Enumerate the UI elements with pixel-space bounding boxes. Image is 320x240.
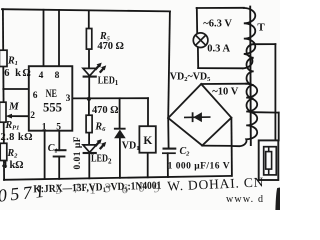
wire VD1 to ground rail [119, 139, 121, 178]
svg-text:1: 1 [42, 123, 47, 133]
wire K branch from pin3 row [147, 98, 149, 126]
bridge rectifier VD2-VD5 diamond [168, 84, 231, 146]
svg-text:~10 V: ~10 V [212, 86, 238, 97]
wire left rail [3, 9, 4, 180]
svg-text:C1: C1 [48, 143, 58, 155]
svg-text:K: K [143, 135, 152, 147]
wire lamp loop left upper [196, 8, 198, 33]
svg-text:1 000 μF/16 V: 1 000 μF/16 V [168, 161, 230, 171]
transformer 6.3V secondary winding [243, 8, 255, 68]
wire lamp loop bottom [198, 67, 242, 69]
wire lamp loop top [197, 7, 244, 9]
wire LED1 branch from top rail [88, 10, 90, 28]
wire bottom rail [4, 176, 232, 180]
wire lamp to loop bottom [197, 47, 199, 68]
wire K to ground rail [147, 153, 149, 178]
diode VD1 [114, 129, 126, 139]
svg-text:C2: C2 [180, 146, 191, 158]
transformer primary winding [246, 44, 253, 112]
wire primary bottom to plug [254, 111, 279, 113]
wire primary top to plug [254, 43, 276, 45]
wire R6 branch [88, 99, 90, 115]
bridge rectifier inner diode [184, 112, 211, 122]
svg-text:470 Ω: 470 Ω [97, 41, 124, 52]
potentiometer RP1 box [0, 102, 6, 122]
wire pot wiper to pin2 [10, 115, 29, 117]
wire top V+ rail [2, 9, 170, 11]
wire pin3 output row [72, 97, 148, 99]
svg-text:LED1: LED1 [98, 75, 119, 87]
svg-text:R1: R1 [7, 56, 18, 68]
capacitor C1 plates [53, 150, 67, 156]
wire C2 to ground rail [167, 153, 169, 177]
transformer 10V secondary winding [232, 84, 257, 147]
svg-text:R2: R2 [7, 148, 19, 160]
svg-text:VD1: VD1 [122, 141, 140, 153]
wire plug right vertical [274, 44, 276, 140]
wire C1 to ground rail [58, 157, 60, 179]
svg-text:www. d: www. d [226, 194, 264, 205]
svg-text:555: 555 [43, 100, 62, 114]
wire bridge top corner to 10V winding [201, 83, 246, 85]
svg-text:LED2: LED2 [91, 154, 112, 166]
wire V+ rail down to bridge left corner [168, 11, 170, 118]
svg-text:NE: NE [46, 88, 58, 100]
wire R5 to LED1 [88, 49, 90, 68]
svg-text:5: 5 [56, 123, 61, 133]
relay K box [139, 126, 155, 153]
resistor R1 6k box [0, 50, 7, 66]
svg-text:8: 8 [55, 71, 60, 81]
transformer core [249, 7, 252, 145]
wire pin4 [43, 10, 45, 66]
scan artifact corner blob [275, 188, 280, 211]
plug inner box [264, 147, 277, 175]
wire LED1 to pin3 node [88, 76, 90, 99]
svg-text:6 kΩ: 6 kΩ [4, 68, 31, 79]
svg-text:4 kΩ: 4 kΩ [2, 160, 24, 171]
wire bridge left corner to C2 [167, 118, 169, 148]
watermark handwriting digits over caption [54, 179, 161, 197]
lamp indicator [193, 33, 208, 48]
svg-text:0571: 0571 [0, 181, 49, 206]
svg-text:VD2~VD5: VD2~VD5 [170, 72, 211, 84]
wire pin1 to ground rail [44, 131, 46, 179]
wire R6 to LED2 [88, 133, 90, 145]
wire pin5 to C1 [58, 131, 60, 151]
wire bridge bottom corner to AC junction [202, 145, 231, 147]
fuse element in plug [266, 147, 272, 175]
wire plug second vertical [278, 113, 280, 141]
wire pin8 [58, 10, 60, 66]
svg-text:2: 2 [30, 111, 35, 121]
svg-text:RP1: RP1 [5, 120, 20, 132]
svg-text:3: 3 [66, 94, 71, 104]
svg-text:0.3 A: 0.3 A [207, 43, 230, 54]
resistor R5 470 box [86, 29, 91, 50]
plug XP outer box [259, 140, 279, 180]
IC U1 NE555 timer box [29, 66, 73, 131]
resistor R6 470 box [86, 115, 92, 132]
node pin3 junction dot [87, 97, 91, 101]
potentiometer wiper arrowhead [6, 114, 12, 119]
svg-text:~6.3 V: ~6.3 V [203, 19, 232, 30]
wire bridge right corner down to ground rail (crossover) [230, 118, 233, 176]
LED1 symbol [83, 63, 107, 77]
svg-text:0.01 μF: 0.01 μF [73, 136, 83, 169]
svg-text:M: M [8, 101, 20, 113]
svg-text:W. DOHAI. CN: W. DOHAI. CN [167, 174, 264, 193]
svg-text:470 Ω: 470 Ω [92, 105, 119, 116]
svg-text:T: T [257, 21, 265, 33]
svg-text:R6: R6 [94, 121, 106, 133]
resistor R2 4k box [0, 143, 7, 160]
svg-text:2.8 kΩ: 2.8 kΩ [1, 132, 33, 143]
svg-text:6: 6 [33, 91, 38, 101]
wire LED2 to ground rail [88, 153, 90, 179]
wire VD1 branch from pin3 row [119, 98, 121, 128]
LED2 symbol [83, 139, 107, 153]
capacitor C2 plates [162, 149, 176, 154]
caption K:JRX-13F VD1~VD5:1N4001 [33, 180, 161, 196]
svg-text:4: 4 [39, 71, 44, 81]
wire pin6 to divider [3, 88, 29, 90]
